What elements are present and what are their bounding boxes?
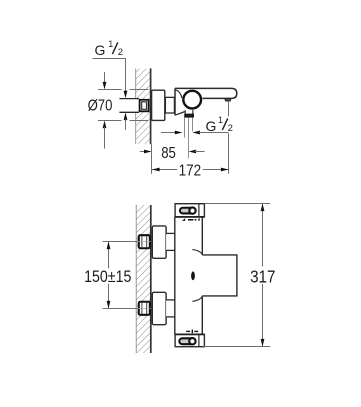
dimension 150±15 [83, 242, 138, 309]
leader line from G 1/2 to supply pipe [92, 59, 127, 130]
fillet hook bottom [192, 296, 202, 302]
svg-text:85: 85 [161, 145, 176, 162]
dimension 85 [140, 145, 205, 162]
neck between escutcheon and body [165, 97, 174, 113]
bottom cap pill handle [179, 338, 195, 344]
svg-text:1: 1 [218, 115, 223, 125]
supply pipe G1/2 (behind wall) [119, 99, 139, 113]
wall face extension line down [151, 144, 153, 174]
top cap pill handle [180, 207, 196, 213]
connection nut (side view) [140, 100, 149, 112]
svg-text:G: G [95, 42, 106, 58]
aerator / mousseur under spout [225, 98, 231, 101]
wall face line [150, 205, 152, 353]
bottom cap indicator symbol [186, 330, 198, 334]
svg-text:2: 2 [118, 47, 123, 58]
top cap indicator symbol [182, 218, 200, 221]
lower S-union pipe [166, 300, 175, 317]
upper escutcheon [152, 226, 166, 258]
Ø70 dimension [88, 72, 149, 149]
extension line from aerator (172 right) [228, 101, 230, 174]
dimension 172 [152, 162, 229, 179]
svg-text:Ø70: Ø70 [88, 98, 113, 115]
valve body and spout silhouette (side view) [175, 88, 237, 115]
dimension 317 [204, 204, 277, 347]
upper inlet nut [138, 235, 151, 248]
svg-text:317: 317 [250, 266, 275, 286]
label G 1/2 (top left) [95, 39, 123, 58]
wall face line [150, 68, 152, 144]
thermostat knob circle (side view) [183, 91, 201, 109]
shower outlet below body [185, 110, 193, 116]
bottom cap (handle end) [175, 334, 204, 346]
wall (hatched) [136, 205, 150, 353]
outlet pipe edge lines [185, 117, 193, 158]
spout (plan view) [202, 255, 237, 296]
body main rectangle [175, 217, 203, 335]
top cap (handle end) [175, 204, 204, 217]
escutcheon Ø70 (side view) [152, 90, 165, 120]
svg-text:G: G [206, 118, 217, 134]
upper S-union pipe [166, 233, 175, 250]
temperature mark on body [191, 271, 195, 280]
label G 1/2 (outlet thread) with leader [206, 115, 233, 134]
svg-text:1: 1 [108, 39, 113, 49]
lower escutcheon [152, 292, 166, 324]
lower inlet nut [138, 302, 151, 315]
svg-text:172: 172 [179, 162, 202, 179]
wall (side view, hatched) [136, 69, 151, 144]
fillet hook top [192, 249, 202, 255]
svg-text:150±15: 150±15 [84, 268, 131, 286]
